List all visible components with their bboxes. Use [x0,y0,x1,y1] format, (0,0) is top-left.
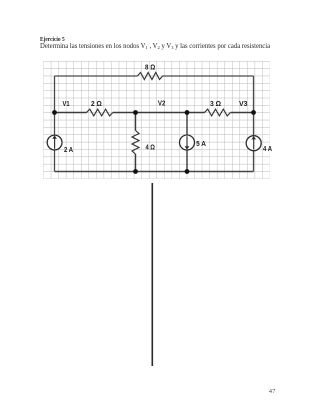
node V1 dot [52,110,57,115]
node junction 4 Ohm bottom dot [133,169,138,174]
current source 2A [47,135,62,150]
svg-text:2 Ω: 2 Ω [91,101,102,108]
label 8 Ohm [145,65,156,72]
label 4 A [263,146,272,153]
wire branch 5A vertical [186,113,188,172]
svg-text:2 A: 2 A [64,147,73,154]
label 2 Ohm [91,101,102,108]
svg-text:4 Ω: 4 Ω [146,144,156,151]
label V1 [63,101,70,108]
svg-text:3 Ω: 3 Ω [210,101,221,108]
resistor 3 Ohm [205,109,231,116]
wire middle node rail V1-V2-V3 [55,112,254,114]
resistor 8 Ohm [137,73,162,80]
wire left edge [54,76,56,172]
wire bottom [55,171,254,173]
label 5 A [196,141,206,148]
svg-text:8 Ω: 8 Ω [145,65,156,72]
label V3 [239,101,248,108]
svg-text:4 A: 4 A [263,146,272,153]
label 2 A [64,147,73,154]
label V2 [158,101,166,108]
svg-text:V1: V1 [63,101,70,108]
title Ejercicio 5 [40,36,65,43]
wire right edge [253,76,255,172]
page number 47 [269,388,276,395]
svg-text:V2: V2 [158,101,166,108]
node junction 4 Ohm top dot [133,110,138,115]
grid background [43,61,270,179]
node V3 dot [251,110,256,115]
wire vertical divider below circuit [151,183,153,366]
label 3 Ohm [210,101,221,108]
node junction 5A bottom dot [185,169,190,174]
svg-text:V3: V3 [239,101,248,108]
subtitle problem statement [40,43,270,50]
resistor 2 Ohm [87,109,113,116]
resistor 4 Ohm [132,131,139,155]
current source 5A [180,135,195,150]
node V2 dot [185,110,190,115]
svg-text:5 A: 5 A [196,141,206,148]
label 4 Ohm [146,144,156,151]
current source 4A [246,136,261,151]
wire top (between 8 ohm resistor leads) [55,75,254,77]
wire branch 4 Ohm vertical [135,113,137,172]
